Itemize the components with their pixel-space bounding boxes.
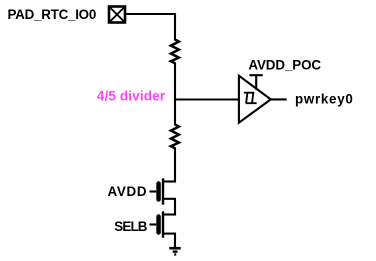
wire R2 to M1 drain <box>174 148 176 183</box>
pad PAD_RTC_IO0 <box>109 7 125 23</box>
wire R1 to R2 <box>174 63 176 126</box>
svg-text:SELB: SELB <box>114 219 147 234</box>
wire node to buffer input <box>174 98 240 100</box>
transistor M1 (AVDD) <box>150 178 177 204</box>
svg-text:AVDD: AVDD <box>108 184 148 199</box>
wire pad to R1 <box>126 14 175 41</box>
hysteresis symbol <box>244 93 257 104</box>
svg-text:4/5 divider: 4/5 divider <box>97 89 166 104</box>
svg-text:AVDD_POC: AVDD_POC <box>248 57 321 72</box>
power stub AVDD_POC <box>249 75 262 90</box>
wire M1 source to M2 drain <box>174 199 176 216</box>
resistor R2 <box>171 125 179 149</box>
ground <box>169 248 180 254</box>
svg-text:PAD_RTC_IO0: PAD_RTC_IO0 <box>8 7 97 22</box>
wire buffer output <box>270 98 287 100</box>
resistor R1 <box>171 40 179 64</box>
wire M2 source to ground <box>174 234 176 248</box>
svg-text:pwrkey0: pwrkey0 <box>295 92 354 107</box>
op-amp buffer U1 <box>239 76 271 123</box>
transistor M2 (SELB) <box>150 211 177 237</box>
